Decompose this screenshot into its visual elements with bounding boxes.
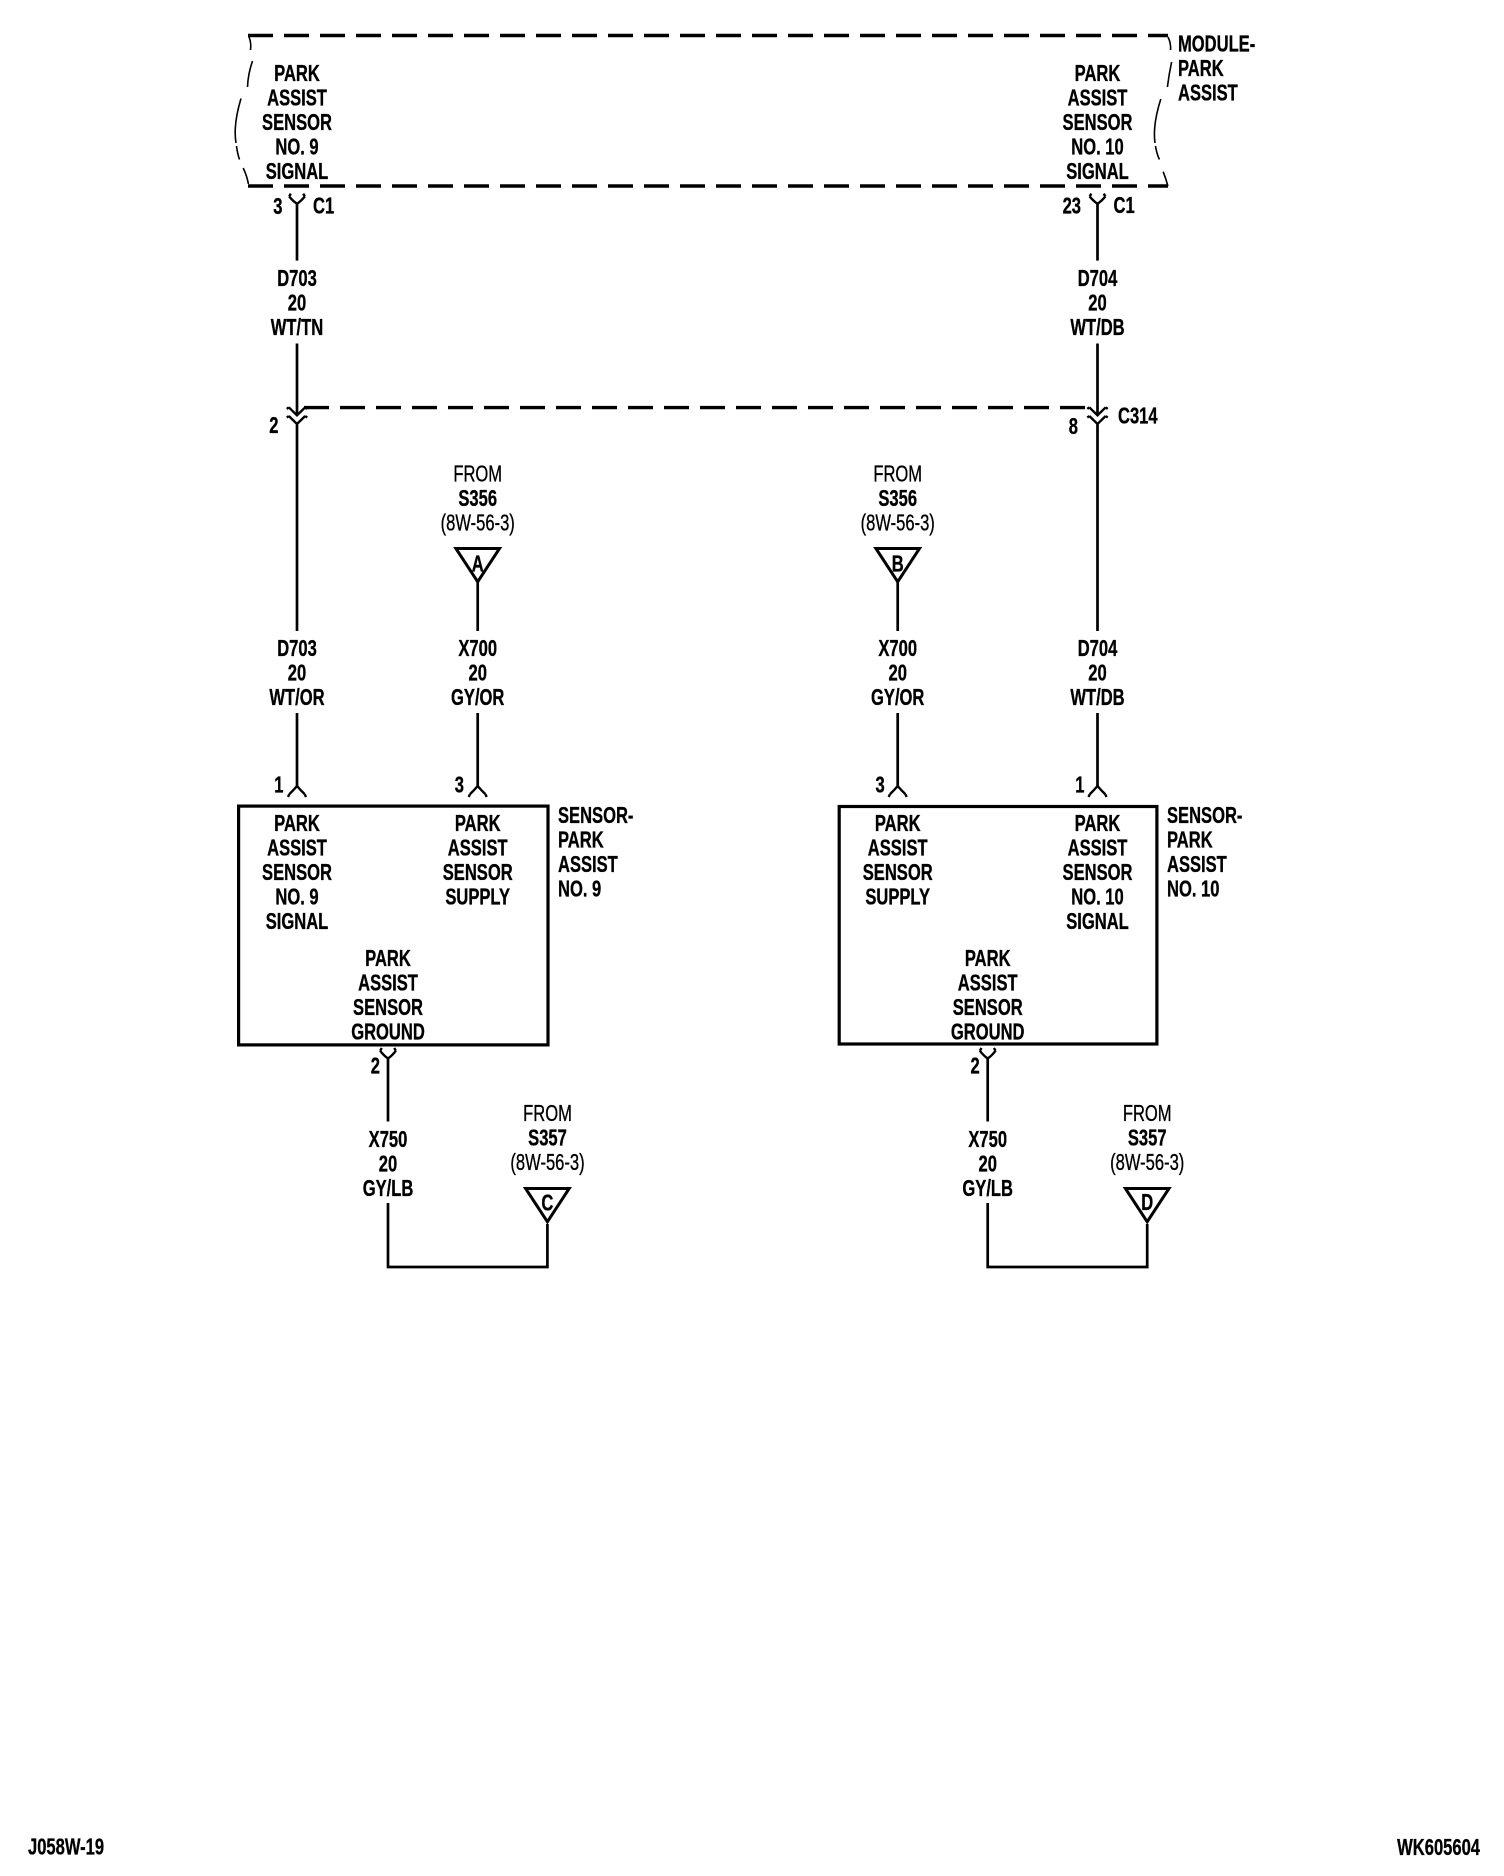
- svg-text:PARK: PARK: [1167, 828, 1213, 853]
- svg-text:(8W-56-3): (8W-56-3): [510, 1150, 584, 1175]
- svg-text:NO. 9: NO. 9: [275, 885, 318, 910]
- svg-text:S356: S356: [878, 486, 917, 511]
- svg-text:C314: C314: [1118, 404, 1158, 429]
- svg-text:SENSOR-: SENSOR-: [558, 803, 633, 828]
- svg-text:SENSOR: SENSOR: [1063, 860, 1133, 885]
- svg-text:ASSIST: ASSIST: [448, 836, 508, 861]
- svg-text:NO. 9: NO. 9: [558, 877, 601, 902]
- svg-text:A: A: [472, 552, 484, 577]
- svg-text:20: 20: [888, 661, 906, 686]
- svg-text:FROM: FROM: [873, 462, 922, 487]
- svg-text:1: 1: [274, 773, 283, 798]
- svg-text:SUPPLY: SUPPLY: [865, 885, 930, 910]
- svg-text:D703: D703: [277, 266, 317, 291]
- svg-text:(8W-56-3): (8W-56-3): [861, 511, 935, 536]
- svg-text:ASSIST: ASSIST: [1178, 81, 1238, 106]
- svg-text:ASSIST: ASSIST: [1068, 86, 1128, 111]
- svg-text:PARK: PARK: [558, 828, 604, 853]
- svg-text:SIGNAL: SIGNAL: [266, 909, 329, 934]
- svg-text:SUPPLY: SUPPLY: [445, 885, 510, 910]
- svg-text:ASSIST: ASSIST: [358, 971, 418, 996]
- svg-text:S356: S356: [458, 486, 497, 511]
- svg-text:SIGNAL: SIGNAL: [1066, 159, 1129, 184]
- svg-text:C1: C1: [1114, 193, 1135, 218]
- svg-text:SENSOR: SENSOR: [1063, 110, 1133, 135]
- svg-text:FROM: FROM: [523, 1101, 572, 1126]
- svg-text:20: 20: [288, 661, 306, 686]
- svg-text:NO. 9: NO. 9: [275, 135, 318, 160]
- svg-text:8: 8: [1069, 414, 1078, 439]
- svg-text:X750: X750: [968, 1127, 1007, 1152]
- svg-text:D: D: [1141, 1190, 1153, 1215]
- svg-text:X700: X700: [878, 636, 917, 661]
- svg-text:2: 2: [269, 413, 278, 438]
- svg-text:ASSIST: ASSIST: [558, 852, 618, 877]
- svg-text:WK605604: WK605604: [1397, 1835, 1481, 1860]
- svg-text:WT/OR: WT/OR: [269, 685, 325, 710]
- svg-text:C1: C1: [313, 194, 334, 219]
- svg-text:D704: D704: [1078, 266, 1118, 291]
- svg-text:SENSOR: SENSOR: [262, 110, 332, 135]
- svg-text:SIGNAL: SIGNAL: [1066, 909, 1129, 934]
- svg-text:SENSOR: SENSOR: [443, 860, 513, 885]
- svg-text:PARK: PARK: [875, 811, 921, 836]
- svg-text:ASSIST: ASSIST: [267, 836, 327, 861]
- svg-text:FROM: FROM: [453, 462, 502, 487]
- svg-text:PARK: PARK: [1075, 811, 1121, 836]
- svg-text:SIGNAL: SIGNAL: [266, 159, 329, 184]
- svg-text:SENSOR: SENSOR: [863, 860, 933, 885]
- svg-text:(8W-56-3): (8W-56-3): [441, 511, 515, 536]
- svg-text:NO. 10: NO. 10: [1071, 135, 1123, 160]
- svg-text:3: 3: [455, 773, 464, 798]
- svg-text:GROUND: GROUND: [351, 1020, 425, 1045]
- svg-text:20: 20: [1088, 661, 1106, 686]
- svg-text:ASSIST: ASSIST: [1167, 852, 1227, 877]
- svg-text:1: 1: [1075, 773, 1084, 798]
- svg-text:SENSOR: SENSOR: [953, 995, 1023, 1020]
- svg-text:SENSOR: SENSOR: [262, 860, 332, 885]
- svg-text:WT/TN: WT/TN: [271, 315, 323, 340]
- svg-text:J058W-19: J058W-19: [28, 1835, 104, 1860]
- svg-text:D703: D703: [277, 636, 317, 661]
- svg-text:PARK: PARK: [365, 946, 411, 971]
- svg-text:GY/OR: GY/OR: [451, 685, 505, 710]
- svg-text:SENSOR: SENSOR: [353, 995, 423, 1020]
- svg-text:2: 2: [371, 1054, 380, 1079]
- svg-text:PARK: PARK: [965, 946, 1011, 971]
- svg-text:NO. 10: NO. 10: [1167, 877, 1219, 902]
- svg-text:ASSIST: ASSIST: [1068, 836, 1128, 861]
- svg-text:B: B: [892, 552, 904, 577]
- svg-text:D704: D704: [1078, 636, 1118, 661]
- svg-text:S357: S357: [1128, 1126, 1167, 1151]
- svg-text:23: 23: [1063, 194, 1081, 219]
- svg-text:(8W-56-3): (8W-56-3): [1110, 1150, 1184, 1175]
- svg-text:PARK: PARK: [274, 61, 320, 86]
- svg-text:20: 20: [468, 661, 486, 686]
- svg-text:20: 20: [978, 1152, 996, 1177]
- svg-text:ASSIST: ASSIST: [958, 971, 1018, 996]
- svg-text:ASSIST: ASSIST: [267, 86, 327, 111]
- svg-text:X750: X750: [369, 1127, 408, 1152]
- svg-text:3: 3: [273, 194, 282, 219]
- svg-text:SENSOR-: SENSOR-: [1167, 803, 1242, 828]
- svg-text:20: 20: [1088, 291, 1106, 316]
- svg-text:3: 3: [875, 773, 884, 798]
- svg-text:GY/OR: GY/OR: [871, 685, 925, 710]
- svg-text:WT/DB: WT/DB: [1070, 685, 1124, 710]
- svg-text:C: C: [541, 1191, 553, 1216]
- svg-text:PARK: PARK: [1075, 61, 1121, 86]
- svg-text:PARK: PARK: [274, 811, 320, 836]
- svg-text:20: 20: [288, 291, 306, 316]
- svg-text:NO. 10: NO. 10: [1071, 885, 1123, 910]
- svg-text:GROUND: GROUND: [951, 1020, 1025, 1045]
- svg-text:PARK: PARK: [1178, 56, 1224, 81]
- svg-text:X700: X700: [458, 636, 497, 661]
- svg-text:MODULE-: MODULE-: [1178, 32, 1255, 57]
- svg-text:PARK: PARK: [455, 811, 501, 836]
- svg-text:FROM: FROM: [1123, 1101, 1172, 1126]
- svg-text:GY/LB: GY/LB: [363, 1176, 414, 1201]
- svg-text:2: 2: [970, 1054, 979, 1079]
- svg-text:GY/LB: GY/LB: [962, 1176, 1013, 1201]
- svg-text:S357: S357: [528, 1126, 567, 1151]
- svg-text:ASSIST: ASSIST: [868, 836, 928, 861]
- svg-text:WT/DB: WT/DB: [1070, 315, 1124, 340]
- svg-text:20: 20: [379, 1152, 397, 1177]
